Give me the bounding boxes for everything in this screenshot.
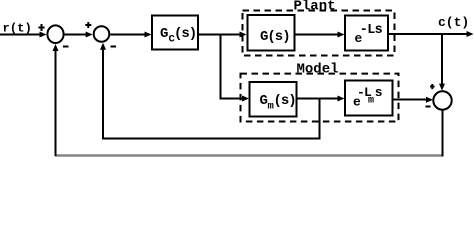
- svg-text:G: G: [260, 93, 268, 109]
- block Gm(s) model transfer function: [250, 82, 297, 117]
- block e^-Lms model delay: [345, 81, 393, 116]
- svg-text:r(t): r(t): [3, 22, 32, 36]
- svg-text:c(t): c(t): [438, 15, 469, 30]
- svg-text:s: s: [375, 85, 383, 100]
- wire: model inner branch down from node: [319, 99, 321, 140]
- minus sign at S3 input from model: [426, 106, 431, 108]
- summing junction S2: [94, 26, 110, 42]
- svg-text:-Ls: -Ls: [360, 23, 383, 38]
- wire: S3 output down to outer feedback run: [442, 110, 444, 157]
- wire: branch down from c(t) node to summing junction S3: [439, 34, 445, 91]
- plus sign at S3 input from plant: [430, 84, 435, 89]
- wire: S2 to controller Gc: [110, 32, 151, 38]
- minus sign at S2 feedback input: [111, 46, 117, 48]
- svg-text:m: m: [368, 96, 374, 107]
- wire: model delay output into summing junction S3: [393, 97, 434, 103]
- wire: plant output to c(t) with branch node: [388, 31, 474, 37]
- wire: outer feedback up into S1: [53, 44, 59, 156]
- dashed box Plant: [243, 11, 395, 56]
- summing junction S3: [433, 91, 451, 109]
- wire: inner feedback bottom run: [102, 138, 321, 140]
- dashed box Model: [241, 74, 399, 122]
- svg-text:Model: Model: [297, 62, 339, 78]
- wire: Gc to plant G(s), with branch node: [198, 32, 247, 38]
- minus sign at S1 feedback input: [63, 46, 69, 48]
- wire: branch to model Gm(s): [220, 96, 250, 102]
- plus sign at S1 input: [38, 24, 44, 31]
- wire: Gm to model branch node: [297, 98, 321, 100]
- wire: S1 to S2: [64, 32, 92, 38]
- svg-text:(s): (s): [174, 26, 196, 42]
- wire: inner feedback up into S2: [100, 43, 106, 140]
- svg-text:Plant: Plant: [294, 0, 336, 14]
- svg-text:(s): (s): [274, 93, 296, 109]
- plus sign at S2 input: [85, 22, 91, 28]
- wire: G(s) to delay block: [295, 32, 345, 38]
- summing junction S1: [47, 25, 63, 43]
- block G(s) plant transfer function: [248, 15, 295, 51]
- svg-text:G(s): G(s): [260, 29, 290, 45]
- block e^-Ls plant delay: [345, 16, 388, 51]
- wire: input r(t) into summing junction S1: [0, 32, 47, 38]
- wire: model branch node to model delay block: [320, 96, 345, 102]
- svg-text:G: G: [160, 26, 168, 42]
- wire: branch down from node to model row: [220, 35, 222, 99]
- block Gc(s) controller: [152, 16, 198, 50]
- wire: outer feedback bottom run (grey): [55, 154, 442, 156]
